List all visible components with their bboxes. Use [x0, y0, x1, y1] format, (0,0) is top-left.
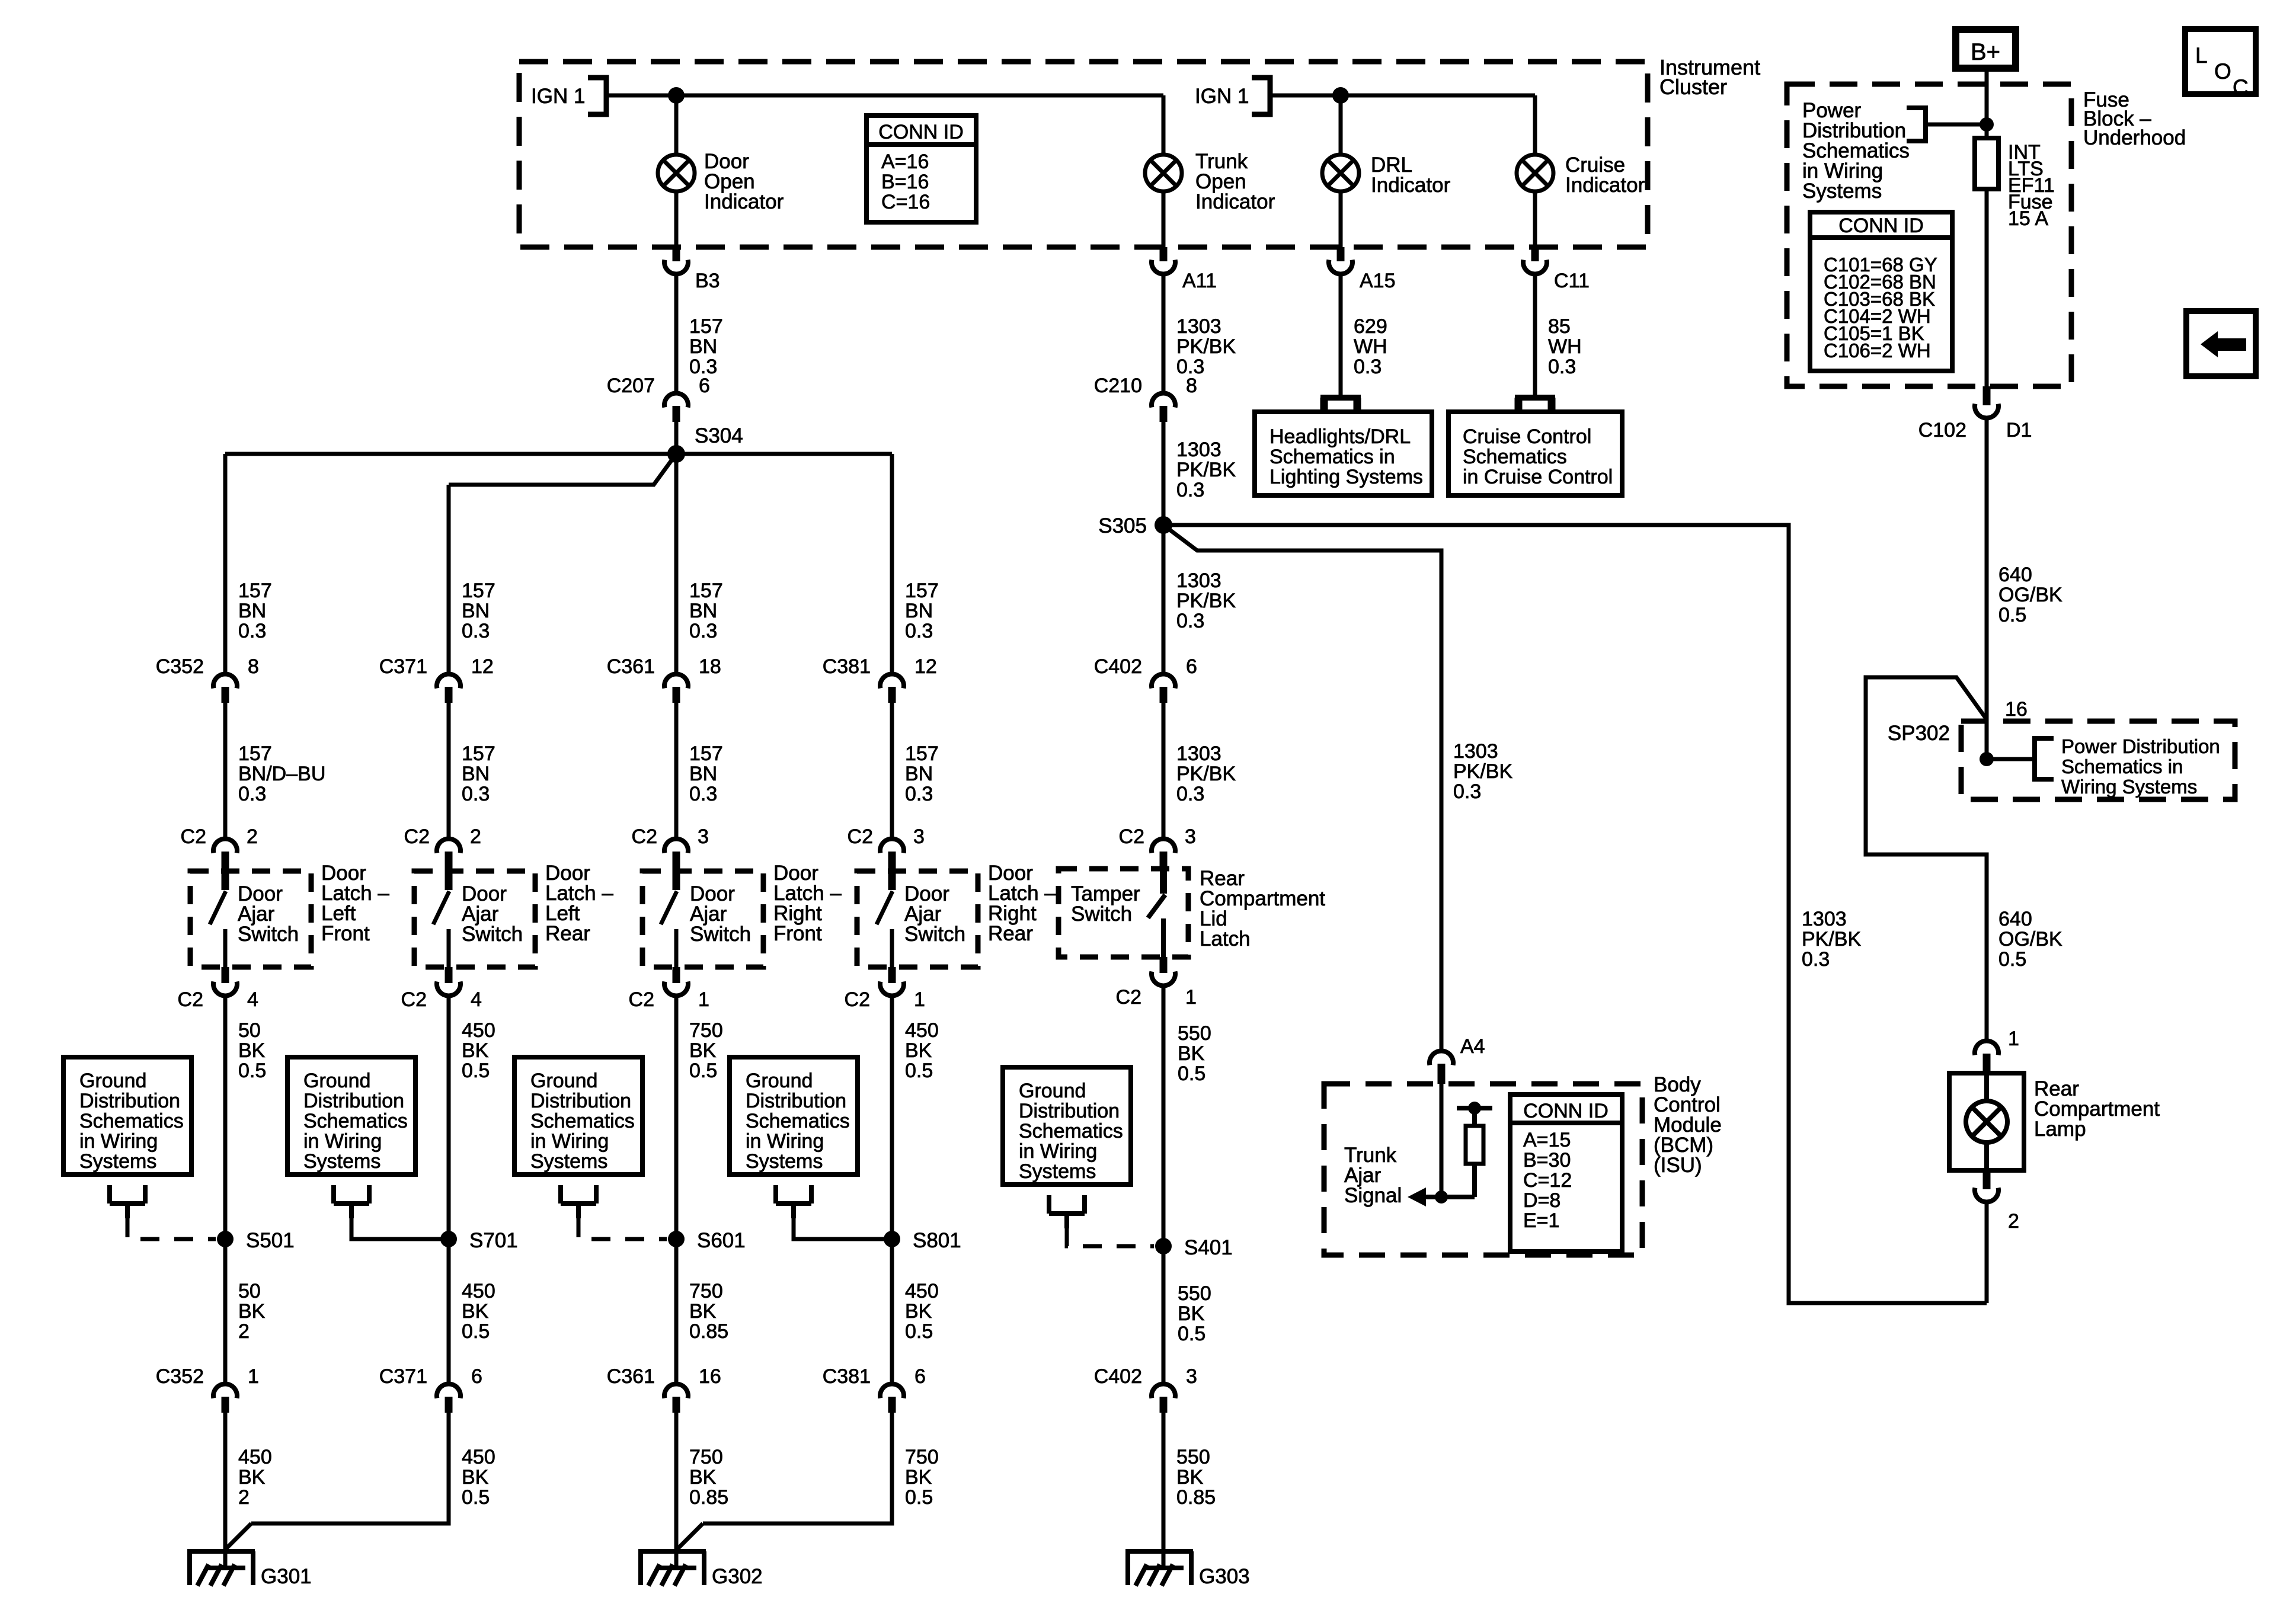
svg-text:O: O	[2214, 59, 2231, 84]
wire below door lamp	[674, 191, 679, 248]
battery terminal B+	[1956, 30, 2016, 68]
svg-text:C371: C371	[379, 655, 427, 678]
svg-text:BN: BN	[238, 600, 266, 622]
splice S401	[1155, 1238, 1172, 1254]
indicator lamp: DRL Indicator	[1322, 155, 1359, 191]
svg-text:0.3: 0.3	[1548, 356, 1576, 378]
svg-text:Front: Front	[773, 922, 822, 945]
svg-text:0.5: 0.5	[1178, 1323, 1205, 1345]
wire S304 branch to left-rear column	[449, 454, 676, 485]
svg-text:0.3: 0.3	[905, 620, 933, 642]
door ajar switch 4 box	[857, 871, 978, 967]
svg-text:450: 450	[462, 1280, 495, 1302]
svg-text:BK: BK	[689, 1039, 717, 1062]
connector C402 pin 6	[1152, 674, 1175, 689]
connector C402 pin 3	[1152, 1384, 1175, 1398]
svg-text:Distribution: Distribution	[79, 1090, 180, 1112]
svg-text:S501: S501	[246, 1229, 295, 1252]
svg-text:Schematics in: Schematics in	[2061, 756, 2183, 777]
CONN ID table (BCM)	[1510, 1094, 1622, 1251]
svg-text:0.85: 0.85	[689, 1486, 728, 1509]
wire B+ into fuse block	[1985, 72, 1989, 138]
svg-text:0.5: 0.5	[462, 1320, 490, 1343]
connector pin B3 (door open indicator)	[673, 247, 680, 261]
svg-text:0.5: 0.5	[1178, 1062, 1205, 1085]
svg-text:C381: C381	[823, 1365, 871, 1388]
svg-text:G302: G302	[712, 1565, 763, 1588]
wire label 1303 PK/BK 0.3 (A11 to C210)	[1162, 272, 1166, 392]
svg-text:157: 157	[238, 742, 272, 765]
wire label 550 BK 0.5	[1162, 1246, 1166, 1382]
svg-text:WH: WH	[1548, 335, 1582, 358]
svg-text:in Wiring: in Wiring	[746, 1130, 824, 1153]
svg-text:0.5: 0.5	[905, 1320, 933, 1343]
svg-text:Distribution: Distribution	[1019, 1100, 1120, 1122]
svg-text:750: 750	[689, 1280, 723, 1302]
BCM box	[1324, 1084, 1642, 1255]
indicator lamp: Cruise Indicator	[1517, 155, 1553, 191]
svg-text:0.3: 0.3	[462, 783, 490, 805]
svg-text:CONN ID: CONN ID	[878, 121, 964, 143]
indicator lamp: Trunk Open Indicator	[1145, 155, 1182, 191]
svg-text:0.5: 0.5	[1998, 948, 2026, 971]
svg-text:L: L	[2195, 43, 2208, 68]
svg-text:S701: S701	[469, 1229, 518, 1252]
svg-text:BN: BN	[689, 763, 717, 785]
svg-text:C207: C207	[607, 375, 655, 397]
svg-text:1: 1	[2008, 1028, 2019, 1050]
svg-text:Front: Front	[321, 922, 370, 945]
svg-text:G301: G301	[261, 1565, 312, 1588]
svg-text:Schematics in: Schematics in	[1269, 446, 1395, 468]
connector C2 pin 3 (switch top)	[664, 839, 688, 853]
svg-text:B=16: B=16	[881, 171, 929, 193]
CONN ID table (fuse block)	[1810, 212, 1952, 371]
bracket under ground box 1	[110, 1185, 145, 1218]
svg-text:BK: BK	[905, 1466, 932, 1489]
wire col1 to G301	[223, 1413, 228, 1568]
wire detour around SP302 to lamp	[1866, 677, 1987, 1039]
svg-text:C352: C352	[156, 655, 204, 678]
wire S305 to lamp return (right bus)	[1163, 525, 1987, 1303]
wire bracket to B+ feed	[1926, 123, 1987, 127]
svg-text:G303: G303	[1199, 1565, 1250, 1588]
svg-text:3: 3	[698, 825, 709, 848]
svg-text:4: 4	[247, 988, 258, 1011]
connector C381 pin 6	[880, 1384, 904, 1398]
svg-text:157: 157	[905, 742, 939, 765]
wire label 750 BK 0.85	[674, 1239, 679, 1382]
off-page ref: Ground Distribution Schematics (col 5)	[1003, 1067, 1131, 1185]
svg-text:Indicator: Indicator	[1195, 190, 1275, 213]
wire label 50 BK 2	[223, 1239, 228, 1382]
svg-text:8: 8	[1186, 375, 1197, 397]
svg-text:C352: C352	[156, 1365, 204, 1388]
svg-text:750: 750	[905, 1446, 939, 1468]
door column 3: wire 157 BN 0.3 down to C361	[674, 454, 679, 672]
wire label 550 BK 0.5	[1162, 984, 1166, 1246]
svg-text:SP302: SP302	[1888, 722, 1950, 745]
svg-text:S601: S601	[697, 1229, 746, 1252]
wire label 450 BK 0.5	[890, 1239, 894, 1382]
svg-text:C11: C11	[1554, 270, 1590, 292]
svg-text:C402: C402	[1094, 655, 1142, 678]
svg-text:Cluster: Cluster	[1659, 75, 1727, 99]
svg-text:16: 16	[699, 1365, 721, 1388]
svg-text:85: 85	[1548, 315, 1571, 338]
svg-text:PK/BK: PK/BK	[1176, 763, 1236, 785]
svg-text:450: 450	[462, 1019, 495, 1042]
terminal IGN 1 (right)	[1252, 78, 1270, 114]
dashed link to S401	[1067, 1228, 1154, 1246]
svg-text:0.3: 0.3	[1354, 356, 1382, 378]
splice S304	[667, 445, 685, 463]
svg-text:Distribution: Distribution	[530, 1090, 631, 1112]
svg-text:550: 550	[1178, 1282, 1211, 1305]
svg-text:BK: BK	[689, 1466, 717, 1489]
svg-text:1303: 1303	[1176, 315, 1221, 338]
svg-text:B=30: B=30	[1523, 1149, 1571, 1172]
svg-text:Headlights/DRL: Headlights/DRL	[1269, 425, 1411, 448]
svg-text:C102: C102	[1918, 419, 1966, 441]
svg-text:WH: WH	[1354, 335, 1387, 358]
wire label 157 BN/D–BU 0.3	[223, 703, 228, 837]
svg-text:BK: BK	[238, 1466, 266, 1489]
svg-text:2: 2	[247, 825, 258, 848]
wire label 550 BK 0.85	[1162, 1413, 1166, 1568]
splice S801	[884, 1231, 900, 1247]
wire col4 elbow to G302	[703, 1413, 892, 1523]
svg-text:BK: BK	[238, 1039, 266, 1062]
wire label 157 BN 0.3	[674, 703, 679, 837]
svg-text:S304: S304	[695, 424, 743, 447]
svg-text:Systems: Systems	[1019, 1160, 1096, 1183]
splice S305	[1155, 516, 1172, 534]
door column 1: wire 157 BN 0.3 down to C352	[223, 454, 228, 672]
svg-text:Switch: Switch	[690, 923, 751, 946]
wire C210 to S305	[1162, 422, 1166, 525]
svg-text:1303: 1303	[1802, 908, 1847, 930]
svg-text:750: 750	[689, 1019, 723, 1042]
svg-text:PK/BK: PK/BK	[1453, 760, 1512, 783]
svg-text:12: 12	[471, 655, 494, 678]
bracket under ground box 3	[561, 1185, 596, 1218]
terminal IGN 1 (left)	[588, 78, 606, 114]
svg-text:1303: 1303	[1176, 569, 1221, 592]
svg-text:Distribution: Distribution	[746, 1090, 846, 1112]
connector C2 pin 2 (switch top)	[213, 839, 237, 853]
wire label 50 BK 0.5	[223, 994, 228, 1239]
svg-text:Schematics: Schematics	[1019, 1120, 1123, 1142]
wire label 1303 PK/BK 0.3	[1162, 703, 1166, 837]
connector C2 pin 3 (switch top)	[880, 839, 904, 853]
connector pin A4 (BCM)	[1430, 1051, 1453, 1065]
svg-text:Indicator: Indicator	[704, 190, 784, 213]
svg-text:C361: C361	[607, 1365, 655, 1388]
svg-text:BK: BK	[462, 1300, 489, 1323]
svg-text:16: 16	[2005, 698, 2028, 721]
svg-text:Systems: Systems	[1802, 180, 1882, 203]
door column 2: wire 157 BN 0.3 down to C371	[447, 485, 451, 672]
svg-text:BN: BN	[905, 600, 933, 622]
svg-text:BK: BK	[689, 1300, 717, 1323]
svg-text:0.85: 0.85	[689, 1320, 728, 1343]
link to splice	[794, 1218, 892, 1239]
wire IGN1 left bus	[606, 94, 1163, 98]
svg-text:Switch: Switch	[1071, 902, 1132, 926]
svg-text:157: 157	[462, 742, 495, 765]
svg-text:C=12: C=12	[1523, 1169, 1572, 1192]
node: tap to DRL indicator	[1332, 87, 1349, 104]
svg-text:BK: BK	[1178, 1302, 1205, 1325]
svg-text:Power Distribution: Power Distribution	[2061, 735, 2220, 757]
svg-text:0.3: 0.3	[689, 620, 717, 642]
svg-text:15 A: 15 A	[2008, 207, 2048, 230]
svg-text:6: 6	[1186, 655, 1197, 678]
connector C381 pin 12	[880, 674, 904, 689]
off-page ref: Ground Distribution Schematics (col 4)	[730, 1057, 858, 1174]
node on B+ feed	[1980, 117, 1994, 132]
wire S305 down col5	[1162, 525, 1166, 672]
svg-text:OG/BK: OG/BK	[1998, 584, 2062, 606]
wire label 450 BK 0.5	[890, 994, 894, 1239]
connector pin C11 (cruise)	[1531, 247, 1539, 261]
svg-text:C=16: C=16	[881, 191, 930, 213]
svg-text:0.3: 0.3	[238, 620, 266, 642]
svg-text:Schematics: Schematics	[530, 1110, 635, 1132]
svg-text:S305: S305	[1098, 514, 1147, 537]
connector C102 pin D1	[1983, 386, 1991, 405]
connector C2 pin 1 (tamper switch bottom)	[1160, 957, 1168, 973]
svg-text:0.3: 0.3	[238, 783, 266, 805]
connector C361 pin 16	[664, 1384, 688, 1398]
svg-text:2: 2	[238, 1320, 250, 1343]
svg-text:B3: B3	[695, 270, 720, 292]
svg-text:C106=2 WH: C106=2 WH	[1824, 340, 1931, 361]
svg-text:(ISU): (ISU)	[1654, 1154, 1702, 1177]
wire below trunk lamp	[1162, 191, 1166, 248]
wire label 157 BN 0.3	[890, 703, 894, 837]
wire label 450 BK 0.5	[447, 1239, 451, 1382]
svg-text:C2: C2	[404, 825, 430, 848]
ground G301	[187, 1551, 255, 1585]
svg-text:BN/D–BU: BN/D–BU	[238, 763, 325, 785]
svg-text:Systems: Systems	[746, 1150, 823, 1173]
link to splice	[351, 1218, 449, 1239]
svg-text:0.5: 0.5	[238, 1060, 266, 1082]
wire to trunk open indicator	[1162, 95, 1166, 155]
svg-text:50: 50	[238, 1019, 261, 1042]
svg-text:0.5: 0.5	[905, 1486, 933, 1509]
wire trunk ajar signal	[1425, 1195, 1475, 1199]
link to splice	[127, 1218, 216, 1239]
svg-text:450: 450	[905, 1019, 939, 1042]
svg-text:0.3: 0.3	[462, 620, 490, 642]
svg-text:C402: C402	[1094, 1365, 1142, 1388]
svg-text:Cruise Control: Cruise Control	[1463, 425, 1591, 448]
connector C210 pin 8	[1152, 393, 1175, 408]
svg-text:A=15: A=15	[1523, 1129, 1571, 1151]
svg-text:C2: C2	[845, 988, 870, 1011]
svg-text:in Wiring: in Wiring	[303, 1130, 382, 1153]
connector C371 pin 6	[437, 1384, 461, 1398]
svg-text:Schematics: Schematics	[303, 1110, 408, 1132]
bracket under ground box 5	[1049, 1195, 1085, 1228]
svg-text:in Wiring: in Wiring	[79, 1130, 158, 1153]
connector pin 2 (rear compartment lamp)	[1983, 1170, 1991, 1189]
connector C361 pin 18	[664, 674, 688, 689]
instrument cluster box	[519, 62, 1648, 247]
svg-text:629: 629	[1354, 315, 1387, 338]
svg-text:A15: A15	[1360, 270, 1396, 292]
wire IGN1 right bus	[1270, 94, 1535, 98]
svg-text:Ground: Ground	[79, 1070, 146, 1092]
svg-text:1303: 1303	[1453, 740, 1498, 763]
svg-text:6: 6	[914, 1365, 926, 1388]
svg-text:Ground: Ground	[746, 1070, 813, 1092]
wire below DRL lamp	[1339, 191, 1343, 248]
off-page ref: Ground Distribution Schematics (col 3)	[514, 1057, 642, 1174]
svg-text:BK: BK	[1176, 1466, 1204, 1489]
wire label 157 BN 0.3	[447, 703, 451, 837]
wire S305 branch to BCM trunk ajar signal	[1163, 525, 1441, 1049]
svg-text:3: 3	[913, 825, 925, 848]
svg-text:1303: 1303	[1176, 438, 1221, 461]
svg-text:0.5: 0.5	[462, 1486, 490, 1509]
svg-text:6: 6	[699, 375, 710, 397]
svg-text:D=8: D=8	[1523, 1189, 1560, 1212]
wire lamp return down	[1985, 1200, 1989, 1303]
svg-text:12: 12	[914, 655, 937, 678]
svg-text:4: 4	[471, 988, 482, 1011]
wire label 750 BK 0.5	[674, 994, 679, 1239]
link to splice	[578, 1218, 667, 1239]
svg-text:0.5: 0.5	[462, 1060, 490, 1082]
svg-text:C2: C2	[632, 825, 657, 848]
svg-text:1: 1	[914, 988, 925, 1011]
svg-text:Schematics: Schematics	[79, 1110, 184, 1132]
connector C207 pin 6	[664, 393, 688, 408]
svg-text:Ground: Ground	[530, 1070, 597, 1092]
svg-text:C2: C2	[848, 825, 873, 848]
wire label 157 BN 0.3 (B3 to C207)	[674, 272, 679, 392]
svg-text:3: 3	[1186, 1365, 1197, 1388]
svg-text:2: 2	[470, 825, 481, 848]
svg-text:BN: BN	[462, 600, 490, 622]
svg-text:550: 550	[1178, 1022, 1211, 1045]
svg-text:in Wiring: in Wiring	[530, 1130, 609, 1153]
off-page ref: Headlights/DRL Schematics in Lighting Systems	[1320, 395, 1361, 401]
svg-text:0.85: 0.85	[1176, 1486, 1216, 1509]
svg-text:640: 640	[1998, 908, 2032, 930]
svg-text:6: 6	[471, 1365, 482, 1388]
svg-text:Systems: Systems	[303, 1150, 380, 1173]
CONN ID table (instrument cluster)	[866, 116, 976, 222]
bracket under ground box 2	[334, 1185, 369, 1218]
splice S701	[440, 1231, 457, 1247]
svg-text:157: 157	[689, 580, 723, 602]
svg-text:0.3: 0.3	[1176, 479, 1204, 501]
svg-text:Schematics: Schematics	[1463, 446, 1567, 468]
svg-text:Signal: Signal	[1344, 1184, 1402, 1207]
LOC legend box	[2185, 29, 2256, 94]
rear compartment lamp	[1949, 1073, 2024, 1170]
wire S304 bus left/right	[225, 452, 892, 456]
svg-text:2: 2	[2008, 1210, 2019, 1233]
connector C352 pin 1	[213, 1384, 237, 1398]
svg-text:CONN ID: CONN ID	[1838, 215, 1924, 237]
svg-text:PK/BK: PK/BK	[1802, 928, 1861, 950]
svg-text:Schematics: Schematics	[746, 1110, 850, 1132]
connector C2 pin 4 (switch bottom)	[445, 967, 453, 983]
svg-text:550: 550	[1176, 1446, 1210, 1468]
svg-text:0.3: 0.3	[1176, 783, 1204, 805]
svg-text:C2: C2	[181, 825, 206, 848]
connector C2 pin 1 (switch bottom)	[673, 967, 680, 983]
svg-text:Systems: Systems	[530, 1150, 607, 1173]
svg-text:0.3: 0.3	[1453, 780, 1481, 803]
svg-text:in Cruise Control: in Cruise Control	[1463, 466, 1613, 488]
ground G302	[638, 1551, 706, 1585]
svg-text:0.5: 0.5	[1998, 604, 2026, 626]
svg-text:Lamp: Lamp	[2034, 1118, 2086, 1141]
svg-text:Ground: Ground	[1019, 1080, 1086, 1102]
svg-text:BK: BK	[905, 1039, 932, 1062]
svg-text:in Wiring: in Wiring	[1019, 1140, 1097, 1163]
svg-text:157: 157	[689, 315, 723, 338]
svg-text:PK/BK: PK/BK	[1176, 459, 1236, 481]
connector C2 pin 2 (switch top)	[437, 839, 461, 853]
splice S601	[668, 1231, 685, 1247]
fuse block underhood box	[1787, 84, 2071, 386]
svg-text:Switch: Switch	[904, 923, 965, 946]
off-page ref: Ground Distribution Schematics (col 1)	[63, 1057, 191, 1174]
connector pin A11 (trunk open indicator)	[1160, 247, 1168, 261]
ground G303	[1125, 1551, 1193, 1585]
svg-text:C381: C381	[823, 655, 871, 678]
connector C2 pin 3 (tamper switch top)	[1152, 839, 1175, 853]
connector C352 pin 8	[213, 674, 237, 689]
SP302 off-page box: Power Distribution Schematics in Wiring Systems	[1961, 721, 2235, 799]
off-page ref: Ground Distribution Schematics (col 2)	[287, 1057, 415, 1174]
svg-text:8: 8	[248, 655, 259, 678]
svg-text:Latch: Latch	[1200, 927, 1251, 950]
svg-text:C361: C361	[607, 655, 655, 678]
svg-text:0.3: 0.3	[689, 783, 717, 805]
wire A4 into BCM	[1440, 1084, 1444, 1197]
svg-text:Indicator: Indicator	[1371, 174, 1451, 197]
svg-text:157: 157	[238, 580, 272, 602]
svg-text:BN: BN	[905, 763, 933, 785]
svg-text:Wiring Systems: Wiring Systems	[2061, 776, 2197, 798]
svg-text:Switch: Switch	[462, 923, 523, 946]
connector pin 1 (rear compartment lamp)	[1975, 1041, 1998, 1055]
splice S501	[217, 1231, 234, 1247]
svg-text:2: 2	[238, 1486, 250, 1509]
door column 4: wire 157 BN 0.3 down to C381	[890, 454, 894, 672]
svg-text:450: 450	[238, 1446, 272, 1468]
svg-text:A11: A11	[1182, 270, 1217, 292]
svg-text:IGN 1: IGN 1	[531, 85, 585, 108]
back-arrow box	[2186, 311, 2256, 376]
indicator lamp: Door Open Indicator	[658, 155, 695, 191]
svg-text:BK: BK	[1178, 1042, 1205, 1065]
wire label 450 BK 0.5	[447, 994, 451, 1239]
svg-text:BK: BK	[462, 1039, 489, 1062]
svg-text:BN: BN	[689, 335, 717, 358]
svg-text:157: 157	[905, 580, 939, 602]
svg-text:OG/BK: OG/BK	[1998, 928, 2062, 950]
